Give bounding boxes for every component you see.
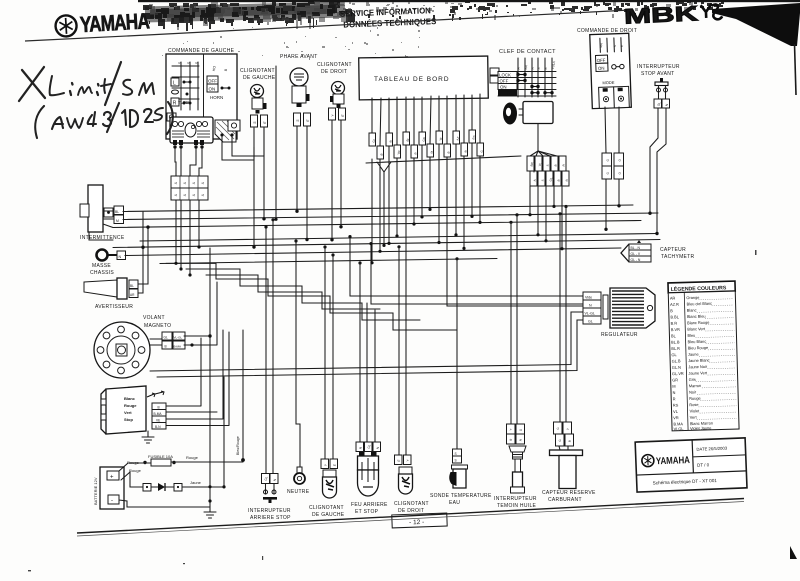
svg-text:Bleu: Bleu (687, 333, 695, 338)
Yamaha logo top left: tuning fork mark (55, 8, 151, 38)
wire drop rear stop switch right (272, 220, 274, 474)
diode branch (143, 480, 224, 491)
svg-text:DE DROIT: DE DROIT (321, 69, 347, 75)
svg-text:+: + (110, 475, 114, 481)
svg-text:Violet Jaune: Violet Jaune (690, 425, 711, 431)
svg-text:MAGNETO: MAGNETO (144, 323, 171, 329)
svg-text:GL.N: GL.N (672, 365, 681, 370)
svg-text:YAMAHA: YAMAHA (656, 455, 690, 467)
svg-text:GL - N: GL - N (631, 258, 641, 262)
svg-text:INTERRUPTEUR: INTERRUPTEUR (248, 508, 291, 514)
svg-text:CAPTEUR: CAPTEUR (660, 247, 686, 253)
svg-text:CARBURANT: CARBURANT (548, 497, 582, 503)
svg-text:BL: BL (130, 284, 134, 288)
svg-text:DE GAUCHE: DE GAUCHE (312, 512, 345, 518)
wires commande gauche connector risers (176, 200, 199, 275)
sonde temperature connector (453, 449, 462, 463)
clignotant droit bulb (330, 82, 345, 109)
svg-text:OFF: OFF (500, 79, 509, 84)
svg-text:ON: ON (500, 85, 507, 90)
wires cdi connector risers (166, 330, 229, 426)
cdi connector stack (152, 403, 166, 429)
svg-text:AR: AR (130, 293, 135, 297)
svg-text:Jaune: Jaune (190, 480, 202, 485)
svg-text:RS: RS (673, 402, 679, 407)
svg-text:Bleu Rouge: Bleu Rouge (688, 345, 708, 351)
svg-text:Rouge: Rouge (186, 455, 199, 460)
svg-text:CAPTEUR RESERVE: CAPTEUR RESERVE (542, 490, 596, 496)
toner smudge band (143, 1, 724, 60)
svg-text:DT / 0: DT / 0 (697, 462, 710, 467)
svg-text:VL-GL: VL-GL (585, 312, 595, 316)
wire drops temoin huile (511, 215, 517, 424)
right edge scan line (795, 44, 797, 95)
svg-text:REGULATEUR: REGULATEUR (601, 332, 638, 338)
svg-text:B.VR: B.VR (671, 327, 680, 332)
svg-text:B-MA: B-MA (174, 345, 182, 349)
svg-text:Gris: Gris (689, 377, 696, 382)
svg-text:Bleu Blanc: Bleu Blanc (688, 339, 707, 345)
batterie 12V (93, 467, 124, 509)
cdi ground (142, 431, 154, 443)
junction dot magneto (208, 334, 211, 337)
svg-text:Jaune: Jaune (688, 352, 699, 357)
svg-text:AVERTISSEUR: AVERTISSEUR (95, 304, 133, 310)
wire magneto B-MA riser (184, 282, 217, 345)
wire drop sonde temperature (456, 259, 458, 449)
svg-text:Rouge: Rouge (689, 396, 701, 401)
svg-text:PHARE AVANT: PHARE AVANT (280, 54, 318, 60)
bus line B3 (113, 221, 641, 228)
clignotant gauche rear bulb (323, 470, 337, 498)
svg-text:INTERRUPTEUR: INTERRUPTEUR (494, 496, 537, 502)
svg-text:GL - V: GL - V (631, 252, 641, 256)
svg-text:VE: VE (156, 419, 160, 423)
svg-text:DE DROIT: DE DROIT (398, 508, 424, 514)
svg-text:VI.GL: VI.GL (673, 426, 684, 431)
stair wire S3 (206, 275, 380, 309)
svg-text:MASSE: MASSE (92, 263, 111, 269)
wire low harness L1 (150, 312, 583, 371)
svg-text:GR: GR (672, 377, 678, 382)
bottom scan line (77, 499, 744, 534)
svg-text:N: N (119, 255, 122, 259)
svg-text:S: S (455, 459, 457, 463)
svg-text:INTERRUPTEUR: INTERRUPTEUR (637, 64, 680, 70)
bus line B4 (140, 234, 657, 242)
svg-text:B-N: B-N (155, 425, 161, 429)
page fold line (25, 10, 630, 41)
scan shadow wedge top right (712, 3, 800, 46)
wire bleu/rouge riser (242, 330, 244, 460)
phare avant bulb (290, 68, 310, 107)
svg-text:AZ.R: AZ.R (670, 302, 679, 307)
svg-text:LOCK: LOCK (499, 73, 511, 78)
wire drops capteur reserve (560, 207, 566, 423)
fusible 10A (127, 454, 199, 473)
svg-text:B: B (158, 406, 160, 410)
avertisseur (horn) (84, 278, 138, 310)
svg-text:TURN: TURN (178, 100, 191, 105)
feu arriere bulb (358, 452, 379, 496)
wires flywheel to connectors (150, 339, 162, 345)
junction dots on buses (174, 204, 658, 277)
junction avertisseur (141, 246, 144, 249)
svg-text:B.R: B.R (671, 321, 678, 326)
svg-text:M: M (672, 384, 675, 389)
bus line B1 (123, 205, 633, 212)
masse chassis (90, 250, 126, 277)
svg-text:CLIGNOTANT: CLIGNOTANT (309, 505, 344, 511)
interrupteur arriere stop pins (262, 474, 279, 504)
wires commande droit down (605, 107, 619, 230)
svg-text:OFF: OFF (597, 58, 606, 63)
svg-text:YAMAHA: YAMAHA (79, 8, 150, 37)
battery positive wires (119, 462, 243, 487)
wire intermittence stub (89, 211, 114, 240)
svg-text:GL.B: GL.B (672, 358, 681, 363)
svg-text:TABLEAU DE BORD: TABLEAU DE BORD (374, 76, 450, 83)
svg-text:Stop: Stop (124, 417, 133, 422)
wire crease vertical (275, 66, 277, 220)
svg-text:Bleu ciel Blanc: Bleu ciel Blanc (686, 301, 712, 307)
svg-text:VOLANT: VOLANT (143, 315, 165, 321)
neutre ring terminal (294, 467, 305, 484)
svg-text:CHASSIS: CHASSIS (90, 270, 114, 276)
svg-text:Orange: Orange (686, 295, 699, 300)
svg-text:M: M (116, 219, 119, 223)
wire avertisseur risers (138, 227, 148, 284)
wires pod to connector (175, 128, 264, 176)
top edge scan line (138, 0, 800, 2)
volant magneto flywheel (94, 322, 150, 378)
svg-text:- 12 -: - 12 - (409, 519, 424, 527)
svg-text:Jaune Vert: Jaune Vert (688, 370, 708, 376)
wires clignotant gauche risers (254, 128, 264, 247)
feu arriere pins (356, 442, 381, 452)
svg-text:DE GAUCHE: DE GAUCHE (243, 75, 276, 81)
service information text (340, 5, 437, 30)
svg-text:COMMANDE DE GAUCHE: COMMANDE DE GAUCHE (168, 48, 235, 54)
wires tableau risers to buses (372, 143, 583, 330)
svg-text:Blanc: Blanc (687, 307, 697, 312)
handwritten note line 2: (AW49/1D52) (35, 103, 163, 138)
interrupteur stop avant switch (654, 78, 670, 108)
cdi unit (101, 386, 146, 434)
wire drops feu arriere (360, 263, 375, 442)
page number box (392, 513, 447, 528)
wire masse stub (124, 255, 126, 257)
svg-text:ET STOP: ET STOP (355, 509, 379, 515)
magneto connector boxes (162, 332, 185, 349)
svg-text:L: L (173, 81, 176, 87)
phare avant pins (294, 113, 311, 126)
commande gauche connector block (171, 176, 208, 200)
clignotant gauche pins (251, 115, 268, 127)
wire switch to connector fan (530, 124, 557, 157)
clignotant gauche rear pins (321, 459, 338, 469)
clignotant de gauche bulb (251, 85, 267, 114)
svg-text:TACHYMETR: TACHYMETR (661, 254, 695, 260)
clignotant droit rear bulb (399, 467, 413, 494)
svg-text:R: R (673, 396, 676, 401)
svg-text:Blanc Vert: Blanc Vert (687, 326, 706, 332)
svg-text:ON: ON (598, 66, 605, 71)
svg-text:AR: AR (670, 295, 676, 300)
battery negative wire + ground (119, 500, 216, 518)
wire drop clignotant gauche rear (325, 247, 333, 459)
svg-text:STOP AVANT: STOP AVANT (641, 71, 674, 77)
svg-text:GL: GL (164, 336, 168, 340)
stair wire S2 (186, 269, 420, 320)
svg-text:SONDE TEMPERATURE: SONDE TEMPERATURE (430, 493, 492, 499)
wire drop rear stop switch left (265, 227, 267, 474)
stair wire S1 (160, 263, 457, 330)
spark arrow (147, 391, 164, 397)
tableau de bord connector row (366, 130, 521, 172)
svg-text:Marron: Marron (689, 383, 701, 388)
svg-text:Rose: Rose (689, 402, 698, 407)
bus line B7 (160, 259, 497, 264)
svg-text:CLEF DE CONTACT: CLEF DE CONTACT (499, 49, 556, 55)
turn switch table (172, 62, 199, 110)
wire drop neutre (296, 241, 300, 467)
svg-text:Rouge: Rouge (124, 403, 137, 408)
wires stop avant down (650, 108, 666, 234)
svg-text:S: S (455, 452, 457, 456)
commande de droit box (590, 33, 632, 108)
svg-text:NEUTRE: NEUTRE (287, 489, 310, 495)
bottom right corner tick (790, 546, 797, 559)
key switch body (523, 102, 553, 124)
wire magneto GL riser (184, 248, 210, 507)
wires clef connector risers (530, 171, 562, 249)
svg-text:B.BL: B.BL (670, 314, 679, 319)
svg-text:FEU ARRIERE: FEU ARRIERE (351, 502, 388, 508)
capteur reserve connector (554, 422, 574, 450)
svg-text:ON: ON (209, 87, 216, 92)
svg-text:LUMIERE: LUMIERE (499, 92, 516, 96)
intermittence (flasher relay) (80, 185, 125, 241)
left switch pod (167, 113, 213, 149)
svg-text:MODE: MODE (602, 80, 614, 85)
svg-text:B: B (165, 345, 167, 349)
clignotant droit pins (329, 108, 346, 120)
wire regulator feed 1 (350, 237, 583, 297)
svg-text:ARRIERE STOP: ARRIERE STOP (250, 515, 291, 521)
regulateur finned body (610, 288, 655, 328)
svg-text:VL-GL: VL-GL (174, 336, 183, 340)
capteur tachymetre connector (621, 240, 651, 262)
svg-text:BL: BL (115, 210, 119, 214)
ignition grommet donut (503, 103, 517, 125)
svg-text:GL.VR: GL.VR (672, 371, 684, 376)
regulateur connector stack (583, 292, 608, 324)
clef de contact switch table (498, 58, 556, 97)
sonde temperature body (449, 465, 467, 488)
connector bracket line (366, 156, 521, 163)
capteur reserve body (550, 450, 583, 489)
wires phare risers (297, 126, 307, 240)
svg-text:Jaune Noir: Jaune Noir (688, 364, 708, 370)
svg-text:Vert: Vert (124, 410, 132, 415)
svg-text:Violet: Violet (689, 408, 700, 413)
svg-text:Blanc Rouge: Blanc Rouge (687, 320, 709, 326)
svg-text:EAU: EAU (449, 500, 460, 506)
wires tableau to connector (372, 94, 480, 146)
svg-text:Bleu/Rouge: Bleu/Rouge (236, 436, 240, 455)
wire jaune riser (223, 377, 225, 487)
svg-text:GL: GL (588, 320, 593, 324)
wires clignotant droit risers (332, 120, 341, 240)
svg-text:Blanc: Blanc (124, 396, 136, 401)
bus line B5 (113, 240, 660, 248)
wire low harness L2 (157, 320, 583, 377)
commande droit connector (602, 153, 624, 179)
svg-text:R: R (173, 101, 177, 107)
stray specks (28, 250, 757, 571)
svg-text:-: - (111, 498, 113, 504)
svg-text:HORN: HORN (210, 95, 223, 100)
svg-text:VR: VR (673, 415, 679, 420)
svg-text:Noir: Noir (689, 389, 697, 394)
svg-text:B-MA: B-MA (154, 412, 163, 416)
wire regulator feed 2 (371, 244, 583, 305)
clef connector block (527, 156, 569, 186)
svg-text:BL - N: BL - N (631, 246, 641, 250)
commande de gauche box (166, 54, 237, 139)
tableau aux connector right (490, 68, 499, 83)
tableau de bord (359, 56, 489, 100)
bus line B2 (123, 213, 658, 220)
MBK wordmark (624, 1, 723, 28)
legende couleurs box (668, 281, 739, 431)
horn switch table (212, 65, 228, 71)
handwritten closing paren (167, 102, 173, 134)
handwritten note line 1: X Limit/SM (19, 62, 154, 105)
title block bottom right (635, 438, 747, 492)
svg-text:TEMOIN HUILE: TEMOIN HUILE (497, 503, 537, 509)
svg-text:Vert: Vert (690, 415, 698, 420)
svg-text:BL.B: BL.B (671, 339, 680, 344)
bottom scan line echo (77, 502, 744, 537)
svg-text:MBK: MBK (624, 2, 699, 28)
svg-text:MA: MA (599, 43, 604, 48)
svg-text:N: N (589, 304, 592, 308)
svg-text:Jaune Blanc: Jaune Blanc (688, 358, 710, 364)
temoin huile body (509, 446, 526, 493)
horn pod hatched (215, 120, 240, 142)
svg-text:BATTERIE 12V: BATTERIE 12V (93, 477, 98, 505)
svg-text:N: N (672, 390, 675, 395)
wire drops clignotant droit rear (399, 247, 406, 455)
MBK emblem glyph (701, 3, 723, 20)
svg-text:CLIGNOTANT: CLIGNOTANT (240, 68, 275, 74)
clignotant droit rear pins (395, 455, 412, 465)
svg-text:FUSIBLE 10A: FUSIBLE 10A (148, 454, 173, 459)
bus line B6 (125, 248, 621, 256)
temoin huile connector (507, 424, 525, 444)
svg-text:Vide: Vide (585, 296, 592, 300)
svg-text:BL.R: BL.R (671, 346, 680, 351)
svg-text:CLIGNOTANT: CLIGNOTANT (394, 501, 429, 507)
svg-text:Rouge: Rouge (129, 468, 142, 473)
svg-text:OFF: OFF (208, 79, 217, 84)
svg-text:Blanc Bleu: Blanc Bleu (687, 314, 706, 320)
svg-text:CLIGNOTANT: CLIGNOTANT (317, 62, 352, 68)
